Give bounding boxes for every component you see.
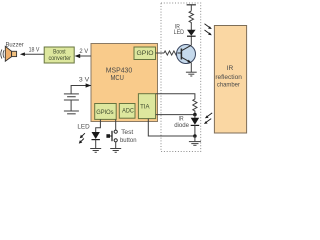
svg-text:reflection: reflection [215,74,242,81]
svg-text:converter: converter [49,55,71,62]
svg-text:MCU: MCU [111,73,124,82]
power rail bar [187,4,196,6]
collector wire up to IR LED [190,37,192,46]
GPIOs block [95,104,117,120]
ground (test button) [110,149,121,153]
GPIO block (top) [134,47,156,60]
Boost converter box [44,47,74,63]
buzzer LS1 [1,41,24,61]
resistor R1 (base) [164,51,179,55]
dashed enclosure [161,3,201,152]
IR diode D2 [174,115,199,136]
wire TIA top -> resistor [156,94,195,99]
IR reflection chamber box [214,26,246,134]
svg-text:IR: IR [227,65,234,72]
TIA block [138,94,155,119]
svg-text:Test: Test [121,129,133,136]
node A junction [193,113,197,117]
svg-text:GPIO: GPIO [137,50,154,57]
MCU U1 box [91,44,158,122]
wire MCU->boost, 2 V [75,48,91,58]
svg-text:LED: LED [77,124,90,131]
LED D3 indicator [77,122,100,149]
transistor Q1 [177,45,196,64]
svg-text:18 V: 18 V [29,47,40,54]
wire GPIOs to MCU edge (LED) [99,119,101,122]
resistor R3 (photodiode load) [193,99,197,115]
test button S1 [106,122,137,149]
svg-text:ADC: ADC [122,108,134,115]
svg-text:LED: LED [174,29,185,36]
svg-text:chamber: chamber [217,82,241,89]
ground (LED) [90,149,101,153]
svg-text:diode: diode [174,122,189,129]
LED emission arrows [79,133,85,143]
wire TIA to MCU edge (node B) [147,119,149,122]
ground (IR diode) [189,136,201,145]
ground (emitter) [186,63,197,76]
wire GPIO -> base resistor [156,52,164,54]
wire GPIOs to MCU edge (button) [115,119,117,122]
svg-text:GPIOs: GPIOs [96,109,113,116]
wire TIA bottom -> node [156,114,195,116]
battery BT1 3 V [64,77,91,114]
wire rail to resistor [190,5,192,11]
svg-text:TIA: TIA [140,103,150,110]
resistor R2 (LED current limit) [189,11,193,23]
ADC block [119,104,135,119]
IR LED D1 [174,23,196,36]
wire boost->buzzer, 18 V [20,47,44,56]
svg-text:Buzzer: Buzzer [5,41,23,48]
IR LED emission arrows [205,24,212,35]
wire MCU bottom -> node B [148,122,195,137]
IR diode incoming arrows [204,113,212,124]
svg-text:2 V: 2 V [79,48,88,55]
svg-text:button: button [120,137,137,144]
svg-text:3 V: 3 V [79,77,90,84]
node B junction [193,134,197,138]
